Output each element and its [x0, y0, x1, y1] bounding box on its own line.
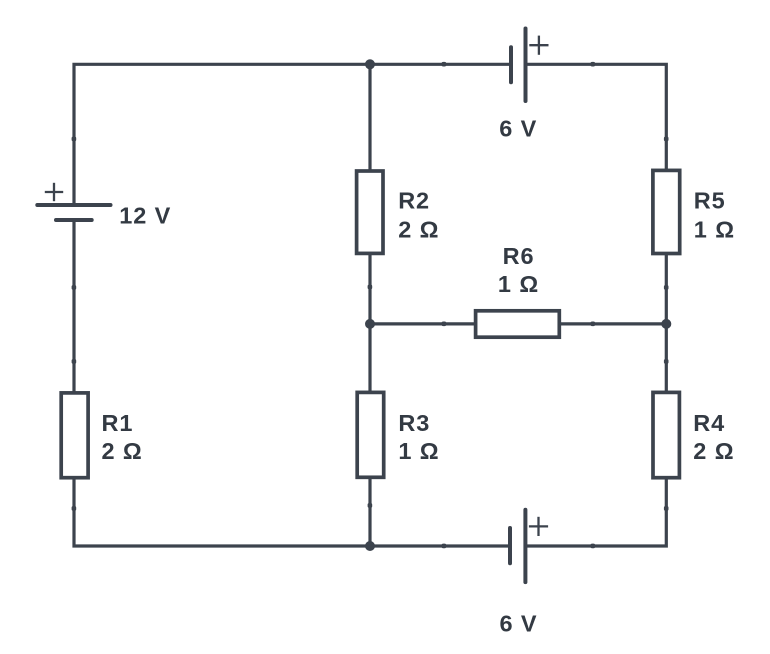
plus sign of battery V2	[529, 36, 548, 55]
svg-text:12 V: 12 V	[119, 203, 171, 229]
battery V3 6 V (bottom, + right)	[510, 510, 525, 582]
wire node A to R6 left	[370, 322, 476, 325]
svg-text:1 Ω: 1 Ω	[498, 271, 539, 297]
junction node A (middle)	[365, 319, 375, 329]
label R3 1 ohm	[398, 410, 439, 464]
wire left branch: top corner to 12V battery top plate	[74, 64, 511, 205]
svg-text:R4: R4	[693, 410, 725, 436]
wire from R5 bottom through node B to R4 top	[665, 254, 668, 393]
wire from R2 bottom through node A to R3 top	[368, 253, 371, 392]
svg-text:1 Ω: 1 Ω	[398, 438, 439, 464]
wire segment joints (small nubs)	[72, 62, 669, 548]
label R2 2 ohm	[398, 188, 439, 243]
battery V1 12 V (left, + up)	[37, 205, 110, 220]
svg-text:R1: R1	[102, 410, 134, 436]
svg-text:R3: R3	[398, 410, 430, 436]
label R4 2 ohm	[693, 410, 734, 464]
svg-text:6 V: 6 V	[500, 610, 538, 636]
resistor R4	[653, 392, 679, 477]
resistor R3	[357, 392, 384, 477]
junction node B (right middle)	[661, 319, 671, 329]
junction node bottom middle	[365, 541, 375, 551]
svg-text:6 V: 6 V	[499, 115, 537, 141]
value label 12 V	[119, 203, 171, 229]
label R6 1 ohm	[498, 243, 539, 297]
wire from R4 bottom to bottom-right corner to bottom 6V battery plus plate	[525, 478, 666, 546]
svg-text:R5: R5	[694, 188, 726, 214]
wire from R3 bottom to bottom wire node	[368, 477, 371, 546]
resistor R2	[357, 171, 383, 253]
resistor R1	[61, 393, 88, 478]
value label 6 V (bottom)	[500, 610, 538, 636]
battery V2 6 V (top, + right)	[511, 29, 526, 102]
svg-text:1 Ω: 1 Ω	[694, 217, 735, 243]
junction node top middle	[365, 59, 375, 69]
resistor R5	[653, 170, 680, 253]
wire from R1 bottom to bottom-left corner then to bottom 6V battery	[74, 478, 510, 546]
label R1 2 ohm	[102, 410, 143, 464]
value label 6 V (top)	[499, 115, 537, 141]
plus sign of battery V1	[45, 183, 63, 201]
label R5 1 ohm	[694, 188, 735, 243]
wire top-right: from top 6V battery plus plate to top-right corner down to R5 top	[526, 64, 667, 170]
svg-text:R2: R2	[398, 188, 430, 214]
svg-text:R6: R6	[503, 243, 535, 269]
wire middle top: node at top wire down to R2 top	[368, 64, 371, 171]
svg-text:2 Ω: 2 Ω	[102, 438, 143, 464]
wire from 12V battery bottom plate down to R1 top	[72, 220, 75, 393]
wire R6 right to node B	[559, 322, 666, 325]
svg-text:2 Ω: 2 Ω	[398, 217, 439, 243]
plus sign of battery V3	[529, 517, 548, 536]
svg-text:2 Ω: 2 Ω	[693, 438, 734, 464]
resistor R6	[476, 311, 560, 337]
